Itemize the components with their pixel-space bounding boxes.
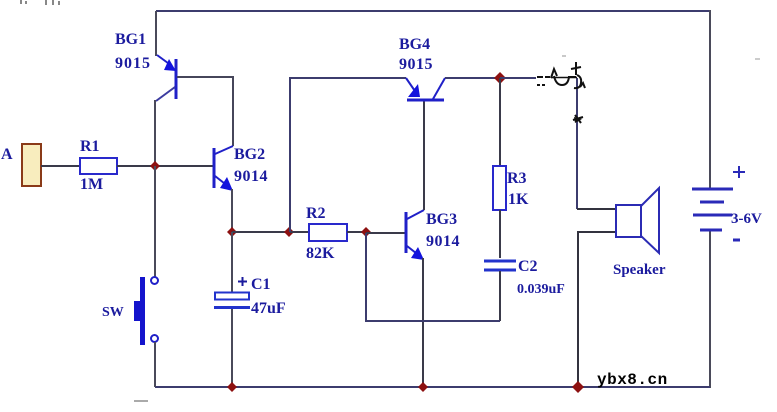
svg-text:R2: R2 [306,205,326,222]
resistor R2 [309,224,347,241]
wire battery top vertical [709,10,711,189]
scribble annotations (handwritten) [537,62,585,123]
switch SW [102,277,158,345]
node junction R3 top [494,72,506,84]
svg-text:A: A [1,146,13,163]
node junction BG3 emitter bottom [418,382,428,392]
svg-text:9015: 9015 [399,56,433,73]
transistor BG1 [115,31,176,101]
wire BG3 emitter down [422,258,424,387]
svg-text:BG1: BG1 [115,31,146,48]
node junction R2/BG3 [361,227,371,237]
wire BG1 collector down to node [154,100,156,166]
capacitor C1 [214,232,286,387]
wire BG2 emitter down [231,189,233,232]
svg-text:82K: 82K [306,245,335,262]
faint mark bottom left [134,400,148,402]
wire feedback node366 down and right to C2 [366,233,500,321]
wire node to corner577 [500,77,536,79]
svg-text:1M: 1M [80,176,103,193]
wire BG1 emitter to top rail [155,11,157,56]
wire SW lower [154,342,156,387]
node junction 290 [284,227,294,237]
svg-text:BG2: BG2 [234,146,265,163]
wire bottom rail [155,386,710,388]
svg-text:SW: SW [102,305,124,320]
svg-text:C1: C1 [251,276,271,293]
svg-text:47uF: 47uF [251,300,286,317]
faint speck right [755,58,760,60]
node junction C1 bottom [227,382,237,392]
wire BG4 collector to R3 node [445,77,500,79]
wire BG3 collector to BG4 base [423,101,425,210]
wire node to node290 [232,231,290,233]
node junction R1/BG1/BG2/SW [150,161,160,171]
svg-text:R3: R3 [507,170,527,187]
svg-text:ybx8.cn: ybx8.cn [597,371,668,389]
node junction BG2e/C1 [227,227,237,237]
node junction speaker bottom [572,381,584,393]
resistor R3 [493,78,529,258]
svg-text:BG4: BG4 [399,36,430,53]
faint crop remnants top [20,0,60,5]
wire node290 to R2 [290,231,309,233]
node A touch plate [22,144,41,186]
faint speck near scribble [562,55,566,57]
capacitor C2 [484,258,565,321]
wire plate to R1 [41,165,80,167]
svg-text:3-6V: 3-6V [731,211,762,227]
battery B1 3-6V [692,189,733,230]
svg-text:1K: 1K [508,191,529,208]
svg-text:9014: 9014 [234,168,268,185]
speaker SP [613,188,666,278]
resistor R1 [80,158,117,174]
speaker leads [577,208,616,210]
transistor BG4 [399,36,445,100]
wire R2 to node366 [347,231,366,233]
svg-text:C2: C2 [518,258,538,275]
svg-text:R1: R1 [80,138,100,155]
svg-text:9015: 9015 [115,55,151,72]
wire battery bottom vertical [709,230,711,388]
svg-text:Speaker: Speaker [613,262,666,278]
wire corner577 down to speaker [576,78,578,209]
wire node290 up to BG4 [290,78,406,232]
svg-text:0.039uF: 0.039uF [517,282,565,297]
wire BG1 base to BG2 collector [177,77,233,146]
wire node366 to BG3 base [366,232,405,234]
svg-text:BG3: BG3 [426,211,457,228]
wire R1 to node [117,165,213,167]
wire top rail [156,10,710,12]
svg-text:9014: 9014 [426,233,460,250]
wire SW upper [154,166,156,277]
transistor BG2 [214,146,268,191]
transistor BG3 [406,210,460,260]
